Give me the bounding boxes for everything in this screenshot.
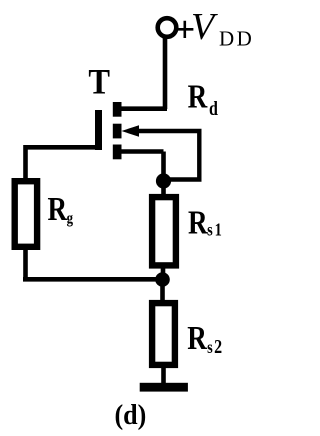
node B junction dot: [155, 272, 170, 287]
wire: VDD terminal down to drain: [119, 37, 167, 110]
wire: Rs2 bottom to ground: [161, 365, 166, 385]
transistor T : gate bar: [95, 110, 102, 150]
resistor Rg: [15, 181, 37, 247]
node A junction dot: [156, 173, 171, 188]
transistor T : source channel dash: [113, 145, 122, 160]
svg-text:V: V: [191, 6, 218, 48]
wire: Rg bottom down and right to node B: [23, 248, 163, 279]
svg-text:(d): (d): [115, 399, 147, 430]
wire: node B to Rs2 top: [160, 280, 165, 303]
wire: Rs1 bottom to node B: [161, 266, 166, 280]
svg-text:T: T: [88, 62, 110, 102]
transistor T : body channel dash: [113, 124, 122, 139]
resistor Rs1: [152, 197, 176, 265]
supply terminal +VDD (open circle): [158, 18, 177, 37]
wire: node A to Rs1 top: [161, 181, 166, 196]
svg-text:DD: DD: [219, 26, 254, 50]
wire: body arrow tail right, down, left to node A: [139, 131, 199, 180]
transistor T : body arrow head: [122, 125, 140, 137]
wire: source right and down to node A: [120, 152, 164, 182]
resistor Rs2: [152, 303, 175, 365]
wire: gate left and down to Rg: [26, 145, 97, 180]
transistor T : drain channel dash: [113, 102, 122, 117]
label +VDD: [174, 6, 254, 51]
ground: [140, 383, 188, 392]
